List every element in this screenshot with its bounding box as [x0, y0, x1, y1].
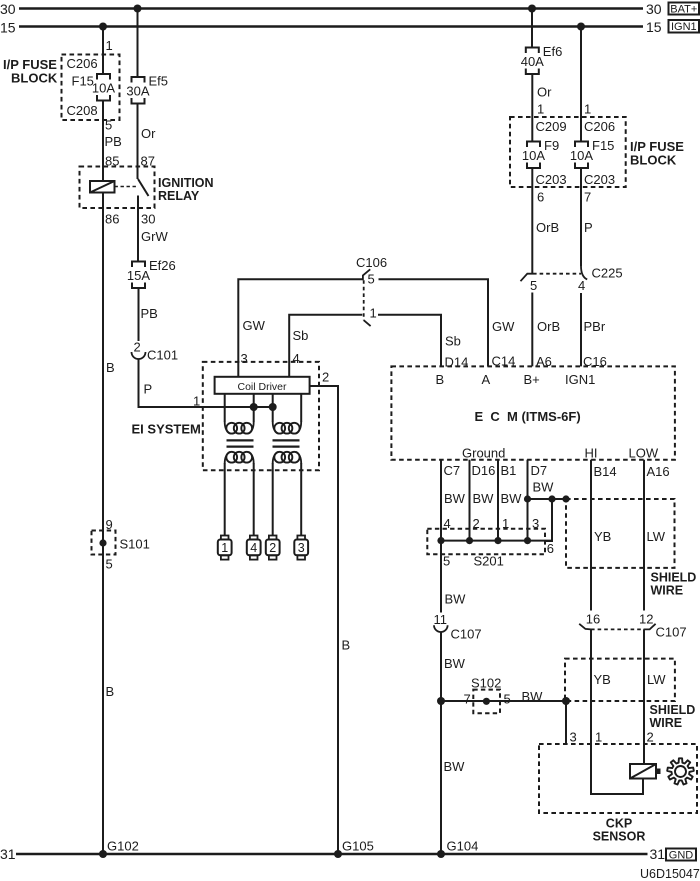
- svg-text:C225: C225: [592, 266, 623, 281]
- svg-text:2: 2: [473, 516, 480, 531]
- svg-text:BW: BW: [444, 656, 466, 671]
- C225 dashed link: [533, 273, 581, 275]
- svg-text:3: 3: [241, 351, 248, 366]
- svg-text:C107: C107: [451, 627, 482, 642]
- svg-text:LW: LW: [647, 529, 666, 544]
- svg-text:Ef5: Ef5: [149, 74, 169, 89]
- fuse F9 10A: [527, 142, 540, 148]
- bus line 31 (GND): [16, 853, 648, 855]
- junction dot G104: [437, 850, 445, 858]
- I/P FUSE BLOCK right dashed box: [510, 117, 626, 187]
- svg-text:1: 1: [193, 394, 200, 409]
- svg-text:IGNITION: IGNITION: [158, 176, 214, 190]
- wire ECM B1 to S201: [497, 460, 499, 541]
- svg-text:A: A: [482, 372, 491, 387]
- fuse Ef5 30A: [132, 77, 145, 83]
- svg-text:6: 6: [547, 541, 554, 556]
- wire F15 to relay coil: [102, 101, 104, 182]
- svg-text:C203: C203: [584, 172, 615, 187]
- relay coil-switch dashed link: [115, 186, 137, 188]
- wire C107 pin11 to G104 (BW): [440, 632, 442, 854]
- wire S102 branch: [441, 700, 566, 702]
- svg-text:PB: PB: [141, 306, 158, 321]
- svg-text:5: 5: [443, 554, 450, 569]
- splice S102 dot: [483, 698, 490, 705]
- C106 pin5 symbol: [363, 269, 370, 280]
- svg-text:G104: G104: [447, 839, 479, 854]
- svg-text:GrW: GrW: [141, 229, 168, 244]
- svg-text:G102: G102: [107, 839, 139, 854]
- splice S201 dashed box: [427, 529, 545, 555]
- svg-text:BW: BW: [533, 480, 555, 495]
- wire C225 pin5 to ECM A6 (OrB): [531, 293, 533, 367]
- svg-text:RELAY: RELAY: [158, 189, 200, 203]
- wire shield drain to CKP pin3: [565, 701, 567, 744]
- svg-text:Sb: Sb: [293, 328, 309, 343]
- svg-text:Sb: Sb: [445, 334, 461, 349]
- junction dot D7/shield: [524, 495, 531, 502]
- S201 junction dots: [437, 537, 444, 544]
- C225 pin5 symbol: [521, 274, 534, 282]
- spark plug 2: [269, 536, 277, 540]
- svg-text:D7: D7: [531, 463, 548, 478]
- svg-text:40A: 40A: [521, 54, 544, 69]
- wire ECM A16 to C107 pin12 (LW): [643, 460, 645, 611]
- wire C107 pin16 to CKP pin1 (YB): [590, 629, 592, 744]
- svg-text:P: P: [144, 382, 153, 397]
- svg-text:10A: 10A: [570, 148, 593, 163]
- svg-text:30: 30: [0, 1, 16, 17]
- junction dot primary B: [269, 403, 277, 411]
- svg-text:SHIELD: SHIELD: [650, 703, 696, 717]
- wire S201 to C107 pin11 (BW): [440, 541, 442, 613]
- svg-text:15: 15: [0, 20, 16, 36]
- C107 pin12 symbol: [644, 624, 656, 630]
- C107 right dashed link: [591, 628, 644, 630]
- svg-text:C206: C206: [584, 119, 615, 134]
- svg-text:LW: LW: [647, 672, 666, 687]
- junction dot bus15 / F15 right wire: [577, 23, 585, 31]
- svg-text:C208: C208: [67, 103, 98, 118]
- junction dot bus30 / Ef5 wire: [134, 5, 142, 13]
- svg-text:S102: S102: [471, 676, 501, 691]
- svg-text:1: 1: [502, 516, 509, 531]
- svg-text:B14: B14: [594, 464, 617, 479]
- svg-text:GW: GW: [243, 318, 266, 333]
- terminal box IGN1: [669, 20, 700, 33]
- junction dot bus30 / Ef6 wire: [528, 5, 536, 13]
- wire Ef6 to fuse block (Or): [531, 74, 533, 142]
- svg-text:P: P: [584, 220, 593, 235]
- svg-text:C106: C106: [356, 255, 387, 270]
- svg-text:15A: 15A: [127, 268, 150, 283]
- svg-text:3: 3: [298, 541, 305, 555]
- terminal box GND: [666, 849, 696, 861]
- svg-text:10A: 10A: [522, 148, 545, 163]
- svg-text:PBr: PBr: [584, 319, 606, 334]
- svg-text:WIRE: WIRE: [650, 716, 683, 730]
- CKP sensor dashed box: [539, 744, 697, 813]
- wire bus15 to F15 right: [580, 27, 582, 142]
- svg-text:BLOCK: BLOCK: [11, 71, 58, 86]
- spark plug 1: [221, 536, 229, 540]
- svg-text:5: 5: [530, 278, 537, 293]
- svg-text:86: 86: [105, 212, 119, 227]
- svg-text:YB: YB: [594, 529, 611, 544]
- splice S102 dashed box: [473, 690, 500, 714]
- svg-text:HI: HI: [585, 446, 598, 461]
- wire bus30 to fuse Ef6: [531, 9, 533, 48]
- bus line 30 (BAT+): [19, 7, 643, 9]
- svg-text:30: 30: [141, 212, 155, 227]
- svg-text:BAT+: BAT+: [670, 3, 697, 15]
- svg-text:1: 1: [370, 306, 377, 321]
- svg-text:5: 5: [368, 272, 375, 287]
- secondary leads to spark plugs: [224, 463, 226, 536]
- coil driver box: [215, 377, 310, 394]
- svg-text:4: 4: [578, 278, 585, 293]
- connector C107-11 cup: [434, 625, 448, 632]
- svg-text:7: 7: [584, 190, 591, 205]
- svg-text:30: 30: [646, 1, 662, 17]
- svg-text:GND: GND: [669, 849, 694, 861]
- svg-text:BLOCK: BLOCK: [630, 153, 677, 168]
- transformer T1 secondary coil: [226, 452, 237, 463]
- I/P FUSE BLOCK left dashed box: [62, 55, 120, 121]
- C106 dashed link: [363, 280, 365, 320]
- ECM dashed box: [391, 366, 675, 459]
- fuse F15 right 10A: [575, 142, 588, 148]
- svg-text:CKP: CKP: [606, 817, 632, 831]
- svg-text:SHIELD: SHIELD: [651, 571, 697, 585]
- wire relay30 down (GrW): [137, 196, 139, 262]
- C107 pin16 symbol: [579, 624, 591, 630]
- svg-text:BW: BW: [473, 491, 495, 506]
- svg-text:5: 5: [106, 557, 113, 572]
- svg-text:5: 5: [105, 118, 112, 133]
- svg-text:BW: BW: [501, 491, 523, 506]
- svg-text:2: 2: [647, 730, 654, 745]
- svg-text:YB: YB: [594, 672, 611, 687]
- svg-text:WIRE: WIRE: [651, 584, 684, 598]
- junction dot G105: [334, 850, 342, 858]
- svg-text:30A: 30A: [126, 84, 149, 99]
- svg-text:S101: S101: [120, 537, 150, 552]
- CKP pickup coil: [630, 764, 656, 779]
- wire C107 pin12 to CKP pin2 (LW): [643, 629, 645, 744]
- svg-text:11: 11: [434, 612, 448, 627]
- wire Ef5 to relay switch (Or): [137, 104, 139, 180]
- ignition relay coil: [90, 181, 115, 193]
- svg-text:31: 31: [0, 846, 16, 862]
- svg-text:5: 5: [504, 692, 511, 707]
- svg-text:6: 6: [537, 190, 544, 205]
- svg-text:1: 1: [221, 541, 228, 555]
- transformer T1 core: [227, 439, 254, 441]
- svg-text:3: 3: [532, 516, 539, 531]
- wire bus30 to fuse Ef5: [137, 9, 139, 78]
- wire ECM D7 to S201: [527, 460, 529, 541]
- svg-text:A16: A16: [647, 464, 670, 479]
- svg-text:C209: C209: [536, 119, 567, 134]
- CKP internal wiring: [591, 744, 643, 794]
- ignition relay dashed box: [80, 167, 155, 209]
- terminal box BAT+: [669, 3, 700, 15]
- C106 pin1 symbol: [364, 320, 371, 326]
- junction dot G102: [99, 850, 107, 858]
- svg-text:C107: C107: [656, 625, 687, 640]
- svg-text:S201: S201: [474, 554, 504, 569]
- svg-text:1: 1: [537, 102, 544, 117]
- svg-text:B+: B+: [524, 372, 540, 387]
- svg-text:12: 12: [639, 612, 653, 627]
- svg-text:87: 87: [141, 154, 155, 169]
- svg-text:Or: Or: [537, 85, 552, 100]
- wire shield branch to S201 pin6: [546, 499, 552, 541]
- svg-text:1: 1: [106, 38, 113, 53]
- svg-text:3: 3: [570, 730, 577, 745]
- svg-text:C7: C7: [444, 463, 461, 478]
- svg-text:Coil Driver: Coil Driver: [237, 381, 287, 393]
- fuse Ef26 15A: [132, 262, 145, 268]
- svg-text:B: B: [106, 360, 115, 375]
- svg-text:2: 2: [134, 340, 141, 355]
- svg-text:PB: PB: [105, 134, 122, 149]
- wire F15 to C225 pin4 (P): [580, 168, 582, 266]
- svg-text:LOW: LOW: [629, 446, 659, 461]
- svg-text:4: 4: [250, 541, 257, 555]
- svg-text:E C M (ITMS-6F): E C M (ITMS-6F): [475, 409, 581, 424]
- svg-text:4: 4: [444, 516, 451, 531]
- svg-text:G105: G105: [342, 839, 374, 854]
- wire ECM D16 to S201: [469, 460, 471, 541]
- svg-text:GW: GW: [492, 319, 515, 334]
- EI SYSTEM dashed box: [203, 362, 319, 470]
- svg-text:C206: C206: [67, 56, 98, 71]
- C225 pin4 hook: [581, 266, 587, 279]
- svg-text:BW: BW: [445, 592, 467, 607]
- wire D7 to shield drain: [528, 498, 567, 500]
- junction dot shield branch: [548, 495, 555, 502]
- junction dot bus15 / F15 left wire: [99, 23, 107, 31]
- transformer T2 core: [273, 439, 300, 441]
- wire relay86 to G102 (B): [102, 193, 104, 855]
- svg-text:BW: BW: [444, 759, 466, 774]
- svg-text:OrB: OrB: [537, 319, 560, 334]
- wire C106 pin1 to ECM D14 (Sb): [378, 315, 441, 367]
- wire C106 pin5 to ECM C14 (GW): [379, 279, 489, 366]
- svg-text:7: 7: [464, 692, 471, 707]
- svg-text:Or: Or: [141, 126, 156, 141]
- junction dot shield lower corner: [562, 697, 570, 705]
- svg-text:F15: F15: [72, 74, 94, 89]
- svg-text:Ground: Ground: [462, 446, 505, 461]
- transformer T1 primary coil: [226, 423, 237, 434]
- svg-text:2: 2: [322, 370, 329, 385]
- wire F9 to C225 pin5 (OrB): [531, 168, 533, 274]
- spark plug 3: [297, 536, 305, 540]
- wire bus15 to fuse F15 left: [102, 27, 104, 75]
- shield wire lower dashed box: [565, 659, 675, 701]
- svg-text:IGN1: IGN1: [565, 372, 595, 387]
- transformer T2 primary coil: [274, 423, 285, 434]
- svg-text:EI SYSTEM: EI SYSTEM: [132, 422, 201, 437]
- wire coil driver pin3 to C106 pin5 (GW): [238, 279, 362, 377]
- spark plug 4: [250, 536, 258, 540]
- svg-text:IGN1: IGN1: [671, 21, 697, 33]
- svg-text:OrB: OrB: [536, 220, 559, 235]
- svg-text:D16: D16: [472, 463, 496, 478]
- transformer T2 secondary coil: [274, 452, 285, 463]
- svg-text:16: 16: [586, 612, 600, 627]
- svg-text:Ef6: Ef6: [543, 44, 563, 59]
- svg-text:B: B: [106, 684, 115, 699]
- junction dot primary A: [250, 403, 258, 411]
- splice S101 dot: [99, 539, 106, 546]
- svg-text:Ef26: Ef26: [149, 258, 176, 273]
- svg-text:4: 4: [293, 351, 300, 366]
- relay switch blade: [138, 179, 149, 196]
- svg-text:U6D15047: U6D15047: [640, 867, 700, 881]
- splice S101 dashed box: [92, 531, 116, 555]
- connector C101 cup: [132, 352, 146, 359]
- svg-text:B1: B1: [501, 463, 517, 478]
- fuse Ef6 40A: [526, 48, 539, 54]
- svg-text:C203: C203: [536, 172, 567, 187]
- svg-text:10A: 10A: [92, 81, 115, 96]
- svg-text:15: 15: [646, 19, 662, 35]
- S201 bus wire: [441, 540, 552, 542]
- svg-text:1: 1: [584, 102, 591, 117]
- svg-text:BW: BW: [444, 491, 466, 506]
- CKP reluctor gear: [667, 758, 694, 784]
- svg-text:SENSOR: SENSOR: [593, 830, 646, 844]
- wire coil driver pin2 to G105 (B): [310, 386, 338, 854]
- wire ECM C7 to S201: [440, 460, 442, 541]
- wire Ef26 to C101 (PB): [138, 288, 140, 341]
- svg-text:F15: F15: [592, 138, 614, 153]
- svg-text:B: B: [342, 638, 351, 653]
- svg-text:F9: F9: [544, 138, 559, 153]
- svg-text:2: 2: [269, 541, 276, 555]
- wire C101 to EI system pin1 (P): [139, 359, 273, 407]
- wire coil driver pin4 to C106 pin1 (Sb): [289, 315, 362, 377]
- wire C225 pin4 to ECM C16 (PBr): [580, 293, 582, 366]
- junction dot shield corner: [562, 495, 569, 502]
- shield wire upper dashed box: [566, 499, 675, 568]
- svg-text:BW: BW: [522, 689, 544, 704]
- svg-text:B: B: [436, 372, 445, 387]
- svg-text:31: 31: [650, 846, 666, 862]
- svg-text:1: 1: [595, 730, 602, 745]
- wire ECM B14 to C107 pin16 (YB): [590, 460, 592, 611]
- bus line 15 (IGN1): [19, 25, 643, 27]
- coil driver output wires: [224, 394, 226, 422]
- junction dot S102 branch: [437, 697, 445, 705]
- svg-text:C101: C101: [147, 348, 178, 363]
